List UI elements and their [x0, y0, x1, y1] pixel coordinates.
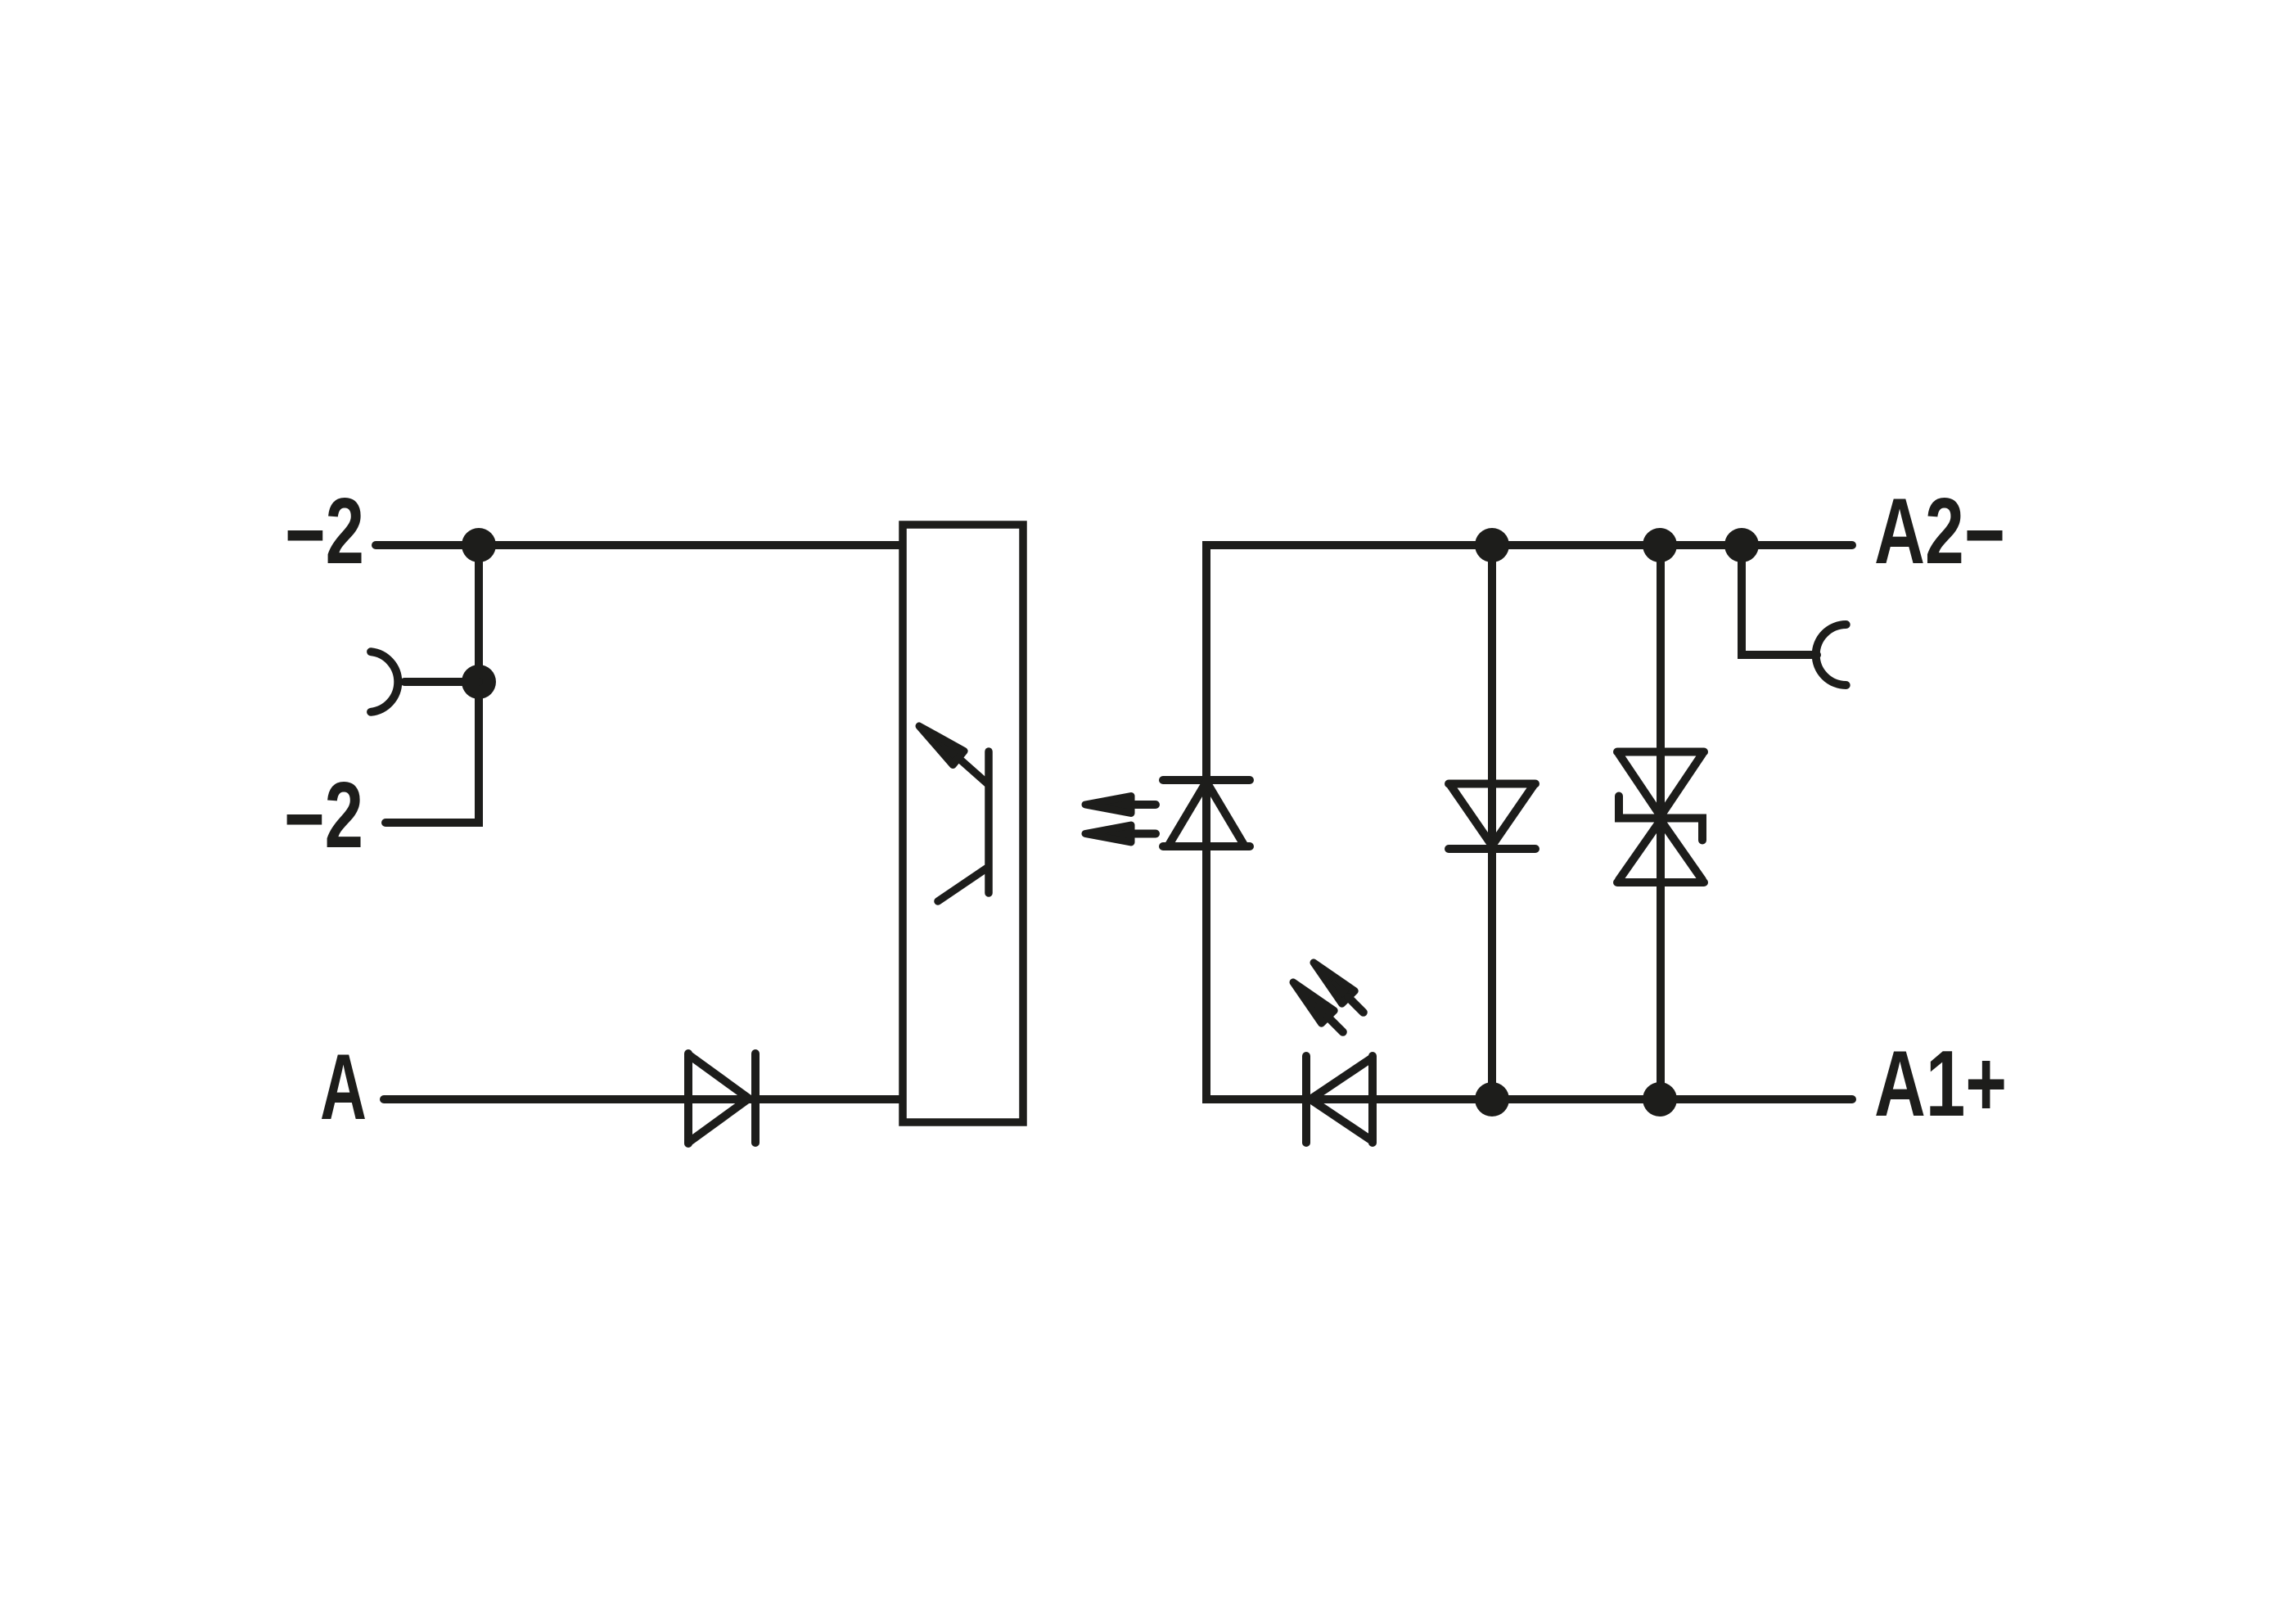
phototransistor arrow head: [919, 726, 964, 765]
node junction dot D5 top: [1643, 528, 1677, 562]
socket contact symbol (right, opening right): [1816, 625, 1846, 685]
node junction dot D5 bottom: [1643, 1082, 1677, 1116]
LED indicator D2 cathode bar: [1302, 1056, 1310, 1143]
LED indicator D2 triangle sides: [1310, 1058, 1373, 1141]
TVS D5 upper triangle sides: [1619, 754, 1702, 816]
wire bottom-right A1+ rail: [1206, 1095, 1852, 1103]
wire A to coupler box: [384, 1095, 899, 1103]
phototransistor emitter line: [938, 868, 986, 901]
LED emission arrow right: [1314, 963, 1355, 1004]
wire bottom elbow to lower -2: [385, 819, 479, 827]
node junction dot tap right: [1724, 528, 1759, 562]
node junction dot at tap stub: [462, 665, 496, 699]
svg-text:A: A: [320, 1035, 367, 1139]
node junction dot D4 bottom: [1475, 1082, 1509, 1116]
opto LED D1 base line: [1163, 842, 1250, 850]
TVS D5 upper triangle top bar: [1617, 748, 1704, 756]
diode D4 anode top bar: [1449, 780, 1535, 788]
TVS D5 zener bar with hooks: [1619, 796, 1702, 841]
phototransistor output inside box: base bar: [985, 751, 993, 893]
wire tap right vertical stub: [1738, 545, 1746, 655]
diode D4 cathode bar: [1449, 845, 1535, 853]
wire opto LED branch vertical: [1202, 545, 1210, 1099]
diode D3 triangle: [689, 1055, 749, 1142]
TVS suppressor D5 branch vertical: [1657, 545, 1665, 1099]
opto LED D1 triangle sides: [1168, 782, 1245, 846]
freewheeling diode D4 branch vertical: [1488, 545, 1496, 1099]
opto light arrow upper: [1085, 796, 1131, 814]
LED emission arrow left: [1293, 982, 1334, 1023]
wire tap right horizontal stub: [1742, 651, 1817, 659]
diode D4 triangle sides: [1450, 785, 1534, 846]
opto LED D1 cathode bar: [1163, 776, 1250, 784]
optocoupler box U1: [903, 525, 1023, 1122]
diode D3 cathode bar: [751, 1053, 760, 1143]
LED indicator D2 base line: [1368, 1056, 1377, 1143]
wire top-left from -2 to coupler box: [376, 541, 899, 549]
wire tap stub to socket: [404, 678, 479, 686]
phototransistor collector line: [958, 758, 987, 783]
socket contact symbol (left, opening left): [371, 652, 398, 712]
node junction dot D4 top: [1475, 528, 1509, 562]
opto light arrow lower: [1085, 825, 1131, 842]
TVS D5 lower triangle sides: [1619, 820, 1702, 880]
svg-text:A2−: A2−: [1874, 480, 2005, 587]
TVS D5 lower triangle base bar: [1617, 878, 1704, 886]
wire vertical left bus: [475, 545, 483, 823]
node junction dot on top-left wire: [462, 528, 496, 562]
wire top-right A2- rail: [1206, 541, 1852, 549]
svg-text:−2: −2: [284, 764, 363, 871]
svg-text:A1+: A1+: [1874, 1032, 2007, 1136]
svg-text:−2: −2: [285, 480, 364, 587]
diode D3 series in A line (anode bar): [684, 1053, 692, 1144]
